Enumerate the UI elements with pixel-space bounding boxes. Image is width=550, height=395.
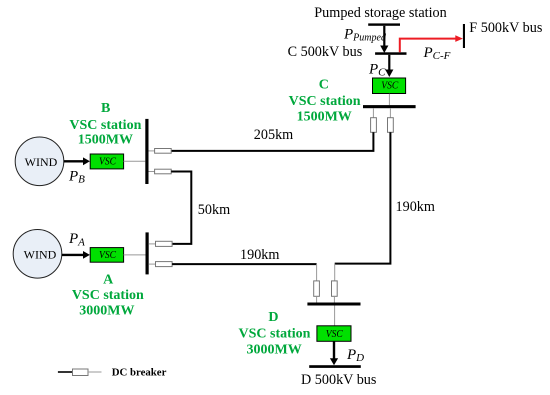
converter VSC D [317, 326, 351, 342]
arrow P_A [62, 251, 90, 259]
svg-text:VSC: VSC [99, 250, 116, 261]
bus F-500kV [463, 24, 465, 48]
svg-text:190km: 190km [240, 247, 279, 263]
wire drop to D breaker right [334, 264, 336, 281]
wire 50km line [171, 172, 191, 244]
converter VSC B [90, 154, 123, 169]
converter VSC A [90, 248, 123, 263]
converter VSC C [373, 78, 406, 94]
DC breaker D left [314, 281, 320, 296]
svg-text:Pumped storage station: Pumped storage station [314, 5, 446, 21]
wire B bus to breaker bottom [149, 171, 155, 173]
svg-text:D: D [268, 310, 278, 325]
svg-text:VSC: VSC [381, 80, 398, 91]
DC breaker C right [388, 118, 394, 133]
bus A station [146, 232, 149, 274]
wire D breaker left to bus [316, 296, 318, 302]
svg-text:WIND: WIND [24, 247, 57, 261]
wire D breaker right to bus [333, 296, 335, 302]
arrow P_C [385, 55, 393, 77]
DC breaker B top [155, 149, 172, 154]
wire VSC B to bus [124, 160, 146, 162]
DC breaker C left [371, 118, 377, 133]
svg-text:A: A [103, 273, 114, 288]
wire A bus to breaker top [149, 243, 156, 245]
svg-text:190km: 190km [396, 199, 435, 215]
svg-text:VSC station: VSC station [289, 94, 361, 109]
bus D-500kV [309, 365, 361, 368]
svg-text:VSC: VSC [326, 329, 343, 340]
DC breaker D right [332, 281, 338, 296]
wire 205km line [171, 132, 373, 151]
arrow P_Pumped [380, 26, 388, 53]
svg-text:VSC station: VSC station [69, 118, 141, 133]
svg-text:VSC: VSC [99, 156, 116, 167]
svg-text:1500MW: 1500MW [78, 133, 133, 148]
svg-text:VSC station: VSC station [72, 288, 144, 303]
arrow P_D [330, 341, 338, 365]
bus C station [363, 105, 416, 108]
wire red C to F [400, 39, 456, 53]
generator WIND B [15, 137, 64, 186]
svg-text:1500MW: 1500MW [297, 110, 352, 125]
svg-text:WIND: WIND [25, 155, 58, 169]
svg-text:F 500kV bus: F 500kV bus [469, 20, 543, 36]
bus C-500kV [375, 52, 406, 55]
wire B bus to breaker top [149, 150, 155, 152]
wire drop to D breaker left [316, 264, 318, 281]
arrow P_B [64, 157, 90, 165]
svg-text:C: C [319, 78, 329, 93]
DC breaker A bottom [156, 262, 173, 267]
svg-text:3000MW: 3000MW [246, 342, 301, 357]
svg-text:D 500kV bus: D 500kV bus [301, 372, 377, 388]
wire VSC C to bus [388, 94, 390, 105]
wire A bus to breaker bottom [149, 263, 156, 265]
wire C to D 190km line [335, 132, 391, 263]
generator WIND A [13, 230, 62, 279]
arrowhead red P_C-F [455, 35, 463, 42]
svg-text:B: B [101, 101, 110, 116]
wire bus to breaker C right [389, 108, 391, 118]
bus D station [307, 303, 360, 306]
svg-text:VSC station: VSC station [239, 327, 311, 342]
bus B station [145, 119, 148, 184]
svg-text:C 500kV bus: C 500kV bus [288, 44, 363, 60]
wire D bus to VSC [334, 306, 336, 326]
wire 190km line A to D [172, 263, 317, 265]
wire VSC A to bus [124, 254, 146, 256]
DC breaker B bottom [155, 169, 172, 174]
DC breaker A top [156, 241, 173, 246]
svg-text:3000MW: 3000MW [79, 303, 134, 318]
svg-text:DC breaker: DC breaker [112, 367, 167, 379]
bus pumped-storage [368, 23, 400, 25]
wire bus to breaker C left [372, 108, 374, 118]
svg-text:205km: 205km [254, 127, 293, 143]
svg-text:50km: 50km [198, 202, 230, 218]
legend DC breaker symbol [58, 369, 102, 376]
